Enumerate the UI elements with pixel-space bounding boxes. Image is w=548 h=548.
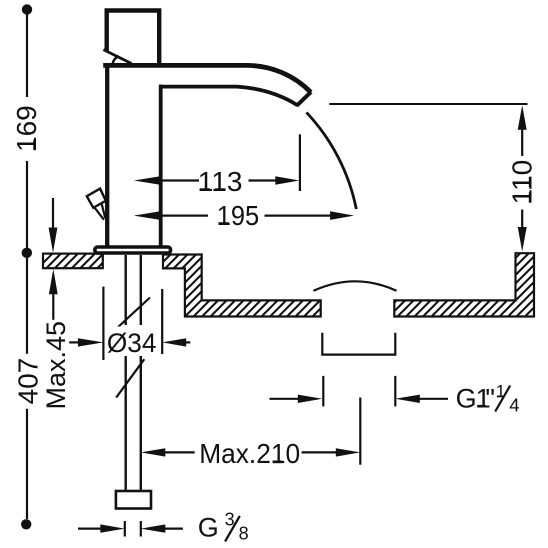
pipe break mark lower <box>116 359 144 397</box>
dim dot bottom <box>21 519 31 529</box>
dim O34 extension right <box>161 289 163 354</box>
dim dot middle <box>22 248 32 258</box>
svg-text:G: G <box>198 513 219 543</box>
drain tailpiece bracket <box>322 333 395 355</box>
dim 195 line <box>160 215 332 217</box>
dim Max.210 left arrow <box>141 448 166 456</box>
dim 113 right arrow <box>275 176 299 185</box>
dim G1 1/4 left arrow <box>270 398 306 400</box>
base plate escutcheon <box>95 247 171 253</box>
spout mouth face <box>297 92 311 106</box>
dim O34 right arrow <box>184 341 190 343</box>
dim Max.210 line <box>163 451 338 453</box>
supply pipe right line <box>140 255 142 491</box>
faucet body right edge <box>159 85 163 247</box>
dim 195 left arrow <box>134 211 160 220</box>
pipe break mark upper <box>117 298 151 329</box>
handle bottom diagonal <box>103 50 131 64</box>
dim 169/407 main line <box>26 14 28 519</box>
dim Max.45 lower arrow <box>52 291 54 320</box>
side knob pin <box>94 204 105 220</box>
svg-text:407: 407 <box>12 358 43 405</box>
countertop left slab <box>43 254 103 269</box>
label 169 <box>11 105 42 152</box>
faucet body top edge and spout outer curve <box>103 65 311 92</box>
water stream arc <box>307 112 357 209</box>
dim 110 up arrow <box>518 105 527 130</box>
svg-text:195: 195 <box>217 200 260 231</box>
dim Max.45 upper arrow <box>52 198 54 230</box>
dim G3/8 left arrow <box>100 524 125 532</box>
dim O34 extension left <box>102 287 104 360</box>
handle pivot arc <box>113 56 119 64</box>
dim G1 1/4 extension left <box>322 376 324 407</box>
dim Max.210 extension line <box>359 398 361 465</box>
dim 195 right arrow <box>330 211 354 220</box>
dim G3/8 left tick <box>124 521 126 537</box>
basin right Z-section <box>163 255 321 317</box>
svg-text:Max.45: Max.45 <box>41 321 71 410</box>
hose end connector nut <box>116 491 151 509</box>
dim G1 1/4 extension right <box>394 376 396 407</box>
side knob square <box>87 189 106 208</box>
dim G3/8 right arrow <box>141 524 166 532</box>
dim dot top <box>22 4 32 14</box>
supply pipe left line <box>124 255 126 491</box>
svg-text:4: 4 <box>509 395 519 416</box>
svg-text:": " <box>485 384 495 414</box>
faucet handle lever <box>107 11 160 65</box>
label 110 <box>507 160 538 205</box>
svg-text:8: 8 <box>239 524 249 544</box>
svg-text:110: 110 <box>507 160 538 205</box>
dim 113 left arrow <box>134 176 160 185</box>
dim G3/8 right tick <box>140 521 142 537</box>
svg-text:G: G <box>456 384 477 414</box>
dim O34 left arrow <box>69 341 80 343</box>
dim 110 reference line <box>329 103 527 105</box>
svg-text:Max.210: Max.210 <box>199 438 300 469</box>
label O34 <box>106 327 158 356</box>
svg-text:169: 169 <box>11 105 42 152</box>
dim G1 1/4 right arrow <box>413 398 448 400</box>
drain dome arc <box>314 281 397 291</box>
dim 110 down arrow <box>518 227 527 252</box>
dim Max.210 right arrow <box>336 448 361 456</box>
dim 113 extension line <box>299 134 301 191</box>
spout inner curve <box>159 87 298 106</box>
faucet body left edge <box>105 64 109 247</box>
svg-text:Ø34: Ø34 <box>107 328 156 358</box>
dim G3/8 left line <box>78 527 102 529</box>
dim 110 vertical line <box>521 127 523 229</box>
svg-text:113: 113 <box>198 166 243 197</box>
dim 113 line <box>161 179 278 181</box>
basin right L-section with wall <box>394 253 534 316</box>
